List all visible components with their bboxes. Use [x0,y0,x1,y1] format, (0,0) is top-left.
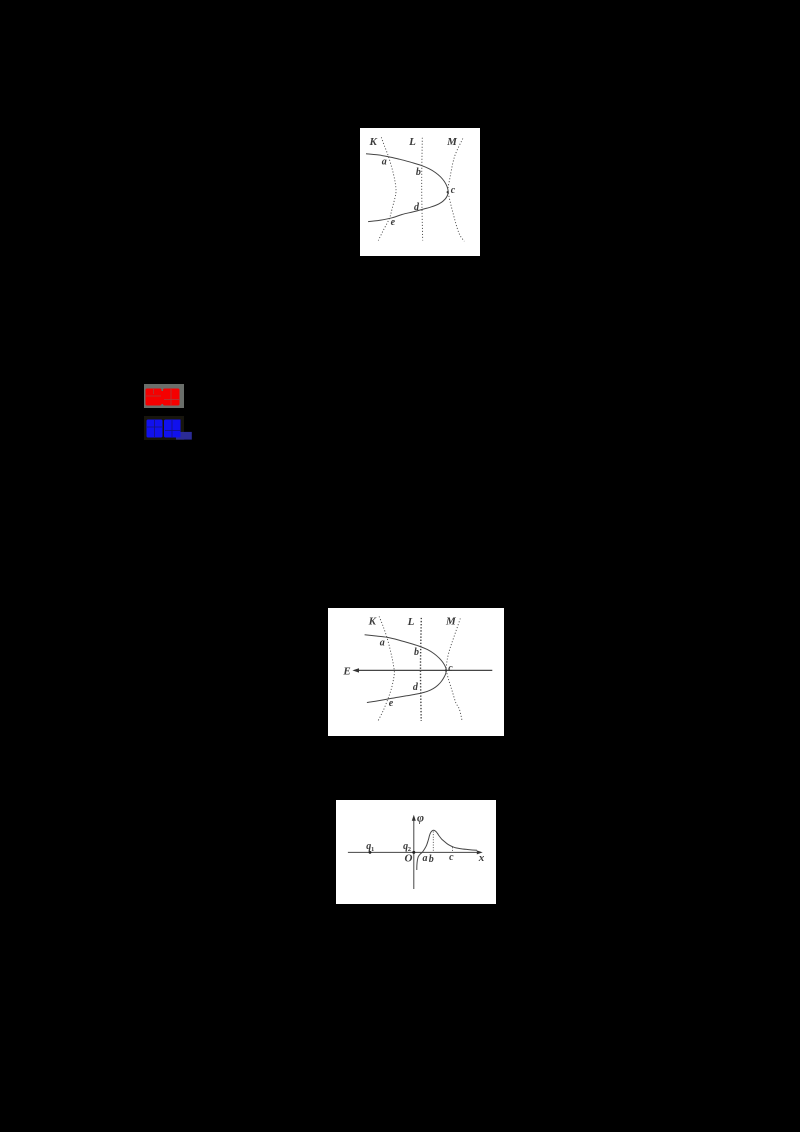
point c dot [445,669,447,671]
phi axis arrowhead [412,815,416,821]
svg-text:1: 1 [371,846,374,853]
equipotential K (dotted) [378,616,395,722]
svg-text:O: O [405,852,413,864]
dotted drop line at peak b [432,832,434,853]
E field arrow line [357,669,493,671]
svg-text:φ: φ [417,811,424,825]
svg-text:d: d [414,202,420,213]
blue CJK glyph blobs [147,420,181,438]
x axis arrowhead [477,850,483,854]
svg-text:c: c [448,663,453,674]
equipotential M (dotted) [448,139,464,242]
charge q1 dot [369,851,372,854]
svg-text:a: a [382,156,387,167]
red answer label box [144,384,184,408]
E arrowhead [352,668,359,672]
svg-text:K: K [368,616,377,628]
svg-text:b: b [429,854,434,865]
equipotential K (dotted) [378,137,396,240]
svg-text:c: c [449,852,454,863]
phi axis [413,819,415,890]
svg-text:K: K [369,136,378,148]
svg-text:M: M [446,136,458,148]
dotted drop line at c [452,847,454,852]
equipotential M (dotted) [446,619,462,722]
svg-text:L: L [407,616,415,628]
x axis [348,851,480,853]
svg-text:e: e [389,698,394,709]
particle trajectory a-b-c-d-e [365,635,447,703]
svg-text:a: a [380,637,385,648]
svg-text:x: x [478,852,485,864]
red CJK glyph blobs [146,389,180,406]
phi curve [417,830,477,870]
figure 2: same diagram with E field arrow [328,608,504,736]
figure 1: equipotential diagram K L M with trajectory abcde [360,128,480,256]
charge q2 dot at origin [412,851,415,854]
svg-text:b: b [416,167,421,178]
navy selection rectangle [176,432,192,440]
gray label background [144,384,184,408]
svg-text:M: M [445,615,457,627]
equipotential L (dotted) [422,138,423,241]
blue analysis label box with selection bar [144,416,192,440]
svg-text:e: e [391,217,396,228]
svg-text:b: b [414,647,419,658]
svg-text:d: d [413,682,419,693]
point c dot [447,191,449,193]
svg-text:c: c [451,185,456,196]
particle trajectory a-b-c-d-e [366,154,448,222]
dark label background [144,416,184,440]
svg-text:a: a [423,853,428,864]
equipotential L (dotted) [420,618,423,721]
figure 3: potential phi versus x graph with charges q1 q2 [336,800,496,904]
svg-text:L: L [408,136,416,148]
svg-text:2: 2 [408,846,411,853]
svg-text:E: E [342,666,350,678]
